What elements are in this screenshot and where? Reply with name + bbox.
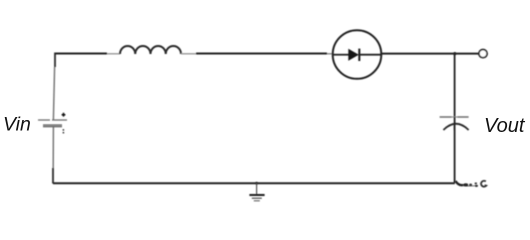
- wire bottom horizontal: [53, 182, 455, 184]
- battery plus mark: [62, 113, 66, 117]
- wire inside circle right: [359, 54, 381, 56]
- diode D1 triangle: [348, 49, 359, 61]
- node output junction: [453, 52, 456, 55]
- capacitor C1 curved plate: [443, 124, 468, 130]
- wire top-left horizontal: [55, 53, 107, 55]
- diode D1 circle: [333, 30, 382, 79]
- wire right vertical through capacitor: [454, 117, 456, 130]
- wire junction to terminal: [455, 53, 479, 55]
- battery V1 top plate: [38, 119, 67, 121]
- ground bar 3: [254, 200, 260, 202]
- ground bar 2: [252, 197, 262, 199]
- node ground junction: [255, 182, 258, 185]
- ground stem: [256, 183, 258, 194]
- wire short gray before circle: [327, 53, 333, 55]
- battery minus mark: [62, 129, 64, 133]
- wire right vertical lower: [454, 124, 456, 183]
- svg-text:Vout: Vout: [484, 115, 526, 137]
- battery V1 bottom plate: [43, 124, 62, 126]
- terminal open circle: [479, 50, 487, 58]
- wire left vertical dark bottom segment: [52, 168, 54, 184]
- diode D1 cathode bar: [358, 49, 360, 61]
- wire left vertical gray middle: [53, 67, 54, 168]
- wire right vertical upper: [454, 54, 456, 117]
- watermark smudge: [456, 181, 487, 187]
- wire inductor to diode circle: [196, 53, 327, 55]
- wire gray segment after inductor: [181, 53, 196, 55]
- ground bar 1: [249, 194, 264, 196]
- inductor L1: [120, 46, 181, 54]
- wire left vertical dark top segment: [54, 53, 56, 68]
- svg-text:Vin: Vin: [3, 114, 31, 136]
- wire inside circle left: [333, 54, 349, 56]
- wire circle to output junction: [381, 53, 454, 55]
- capacitor C1 top plate: [440, 116, 469, 118]
- wire gray segment before inductor: [107, 53, 120, 55]
